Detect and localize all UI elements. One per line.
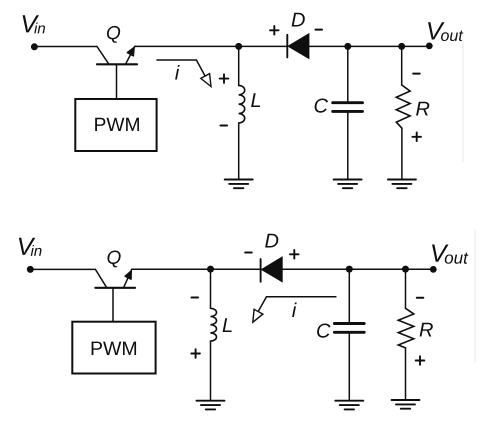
label + at diode left (top) — [270, 26, 279, 35]
label - at inductor bottom (top) — [221, 125, 228, 127]
node junction dot at inductor branch (bottom) — [207, 266, 214, 273]
label + at inductor top (top) — [220, 74, 229, 83]
node junction dot at resistor branch (top) — [398, 43, 405, 50]
label Vin (top) — [23, 15, 45, 33]
faint table border line (top right) — [462, 40, 464, 162]
label Q (top) — [107, 26, 120, 43]
wire inductor to ground (top) — [238, 123, 240, 180]
label + at resistor bottom (bottom) — [416, 356, 425, 365]
node junction dot at capacitor branch (bottom) — [346, 266, 353, 273]
label PWM (bottom) — [92, 342, 136, 355]
label - at resistor top (top) — [413, 73, 420, 75]
label R (bottom) — [420, 323, 433, 337]
label Q (bottom) — [107, 251, 120, 268]
wire node to capacitor (top) — [347, 46, 349, 101]
wire base lead to PWM (top) — [116, 64, 118, 99]
transistor Q (bottom) — [95, 269, 135, 287]
wire inductor to ground (bottom) — [210, 341, 212, 400]
label L (bottom) — [223, 318, 232, 332]
wire Vin to transistor base-left (top) — [34, 46, 97, 48]
inductor L2 (bottom) — [211, 308, 217, 341]
label D (bottom) — [265, 234, 278, 248]
wire node to inductor (top) — [238, 46, 240, 85]
capacitor C1 (top) — [333, 103, 363, 112]
wire node to inductor (bottom) — [210, 269, 212, 308]
wire top rail: emitter to diode (bottom) — [132, 268, 261, 270]
resistor R2 (bottom) — [398, 308, 414, 348]
label R (top) — [416, 102, 429, 116]
label Vout (bottom) — [432, 245, 468, 264]
ground at inductor (top) — [225, 180, 253, 189]
label C (top) — [315, 99, 328, 113]
diode D1 (top) — [287, 34, 309, 59]
ground at inductor (bottom) — [197, 401, 225, 410]
ground at capacitor (bottom) — [335, 401, 363, 410]
node Vin terminal dot (bottom) — [27, 266, 34, 273]
inductor L1 (top) — [239, 85, 245, 123]
current arrow i (bottom) — [253, 297, 336, 323]
label + at resistor bottom (top) — [412, 133, 421, 142]
node Vin terminal dot (top) — [31, 43, 38, 50]
label Vout (top) — [428, 22, 463, 41]
faint table border line (bottom right) — [474, 230, 476, 362]
label Vin (bottom) — [19, 238, 42, 256]
wire top rail: diode to Vout (top) — [309, 45, 429, 47]
wire base lead to PWM (bottom) — [112, 288, 114, 322]
capacitor C2 (bottom) — [334, 324, 364, 333]
wire node to resistor (bottom) — [405, 269, 407, 308]
current arrow i (top) — [157, 60, 211, 87]
label i (bottom) — [292, 303, 297, 317]
transistor Q (top) — [97, 47, 137, 65]
resistor R1 (top) — [396, 85, 410, 128]
label PWM (top) — [95, 118, 139, 131]
label - at inductor top (bottom) — [192, 297, 199, 299]
wire capacitor to ground (top) — [347, 113, 349, 180]
wire capacitor to ground (bottom) — [348, 334, 350, 401]
label C (bottom) — [317, 324, 330, 338]
PWM box U1 (top) — [75, 99, 156, 151]
label + at inductor bottom (bottom) — [191, 349, 200, 358]
label - at diode right (top) — [316, 29, 323, 31]
label + at diode right (bottom) — [290, 250, 299, 259]
PWM box U2 (bottom) — [72, 322, 155, 374]
ground at resistor (bottom) — [392, 400, 420, 409]
node junction dot at resistor branch (bottom) — [402, 266, 409, 273]
wire resistor to ground (bottom) — [405, 348, 407, 400]
wire resistor to ground (top) — [401, 128, 403, 179]
label - at resistor top (bottom) — [417, 297, 424, 299]
label L (top) — [251, 93, 260, 107]
wire Vin to transistor (bottom) — [30, 268, 95, 270]
label D (top) — [292, 13, 305, 27]
wire top rail: diode to Vout (bottom) — [282, 268, 433, 270]
ground at resistor (top) — [388, 180, 416, 189]
diode D2 (bottom) — [261, 257, 283, 282]
wire node to capacitor (bottom) — [348, 269, 350, 322]
node junction dot at capacitor branch (top) — [344, 43, 351, 50]
node Vout terminal dot (bottom) — [430, 266, 437, 273]
wire top rail: emitter to diode (top) — [135, 45, 288, 47]
ground at capacitor (top) — [334, 180, 362, 189]
wire node to resistor (top) — [401, 46, 403, 85]
label - at diode left (bottom) — [245, 252, 252, 254]
label i (top) — [175, 65, 180, 79]
node junction dot at inductor branch (top) — [235, 43, 242, 50]
node Vout terminal dot (top) — [426, 43, 433, 50]
